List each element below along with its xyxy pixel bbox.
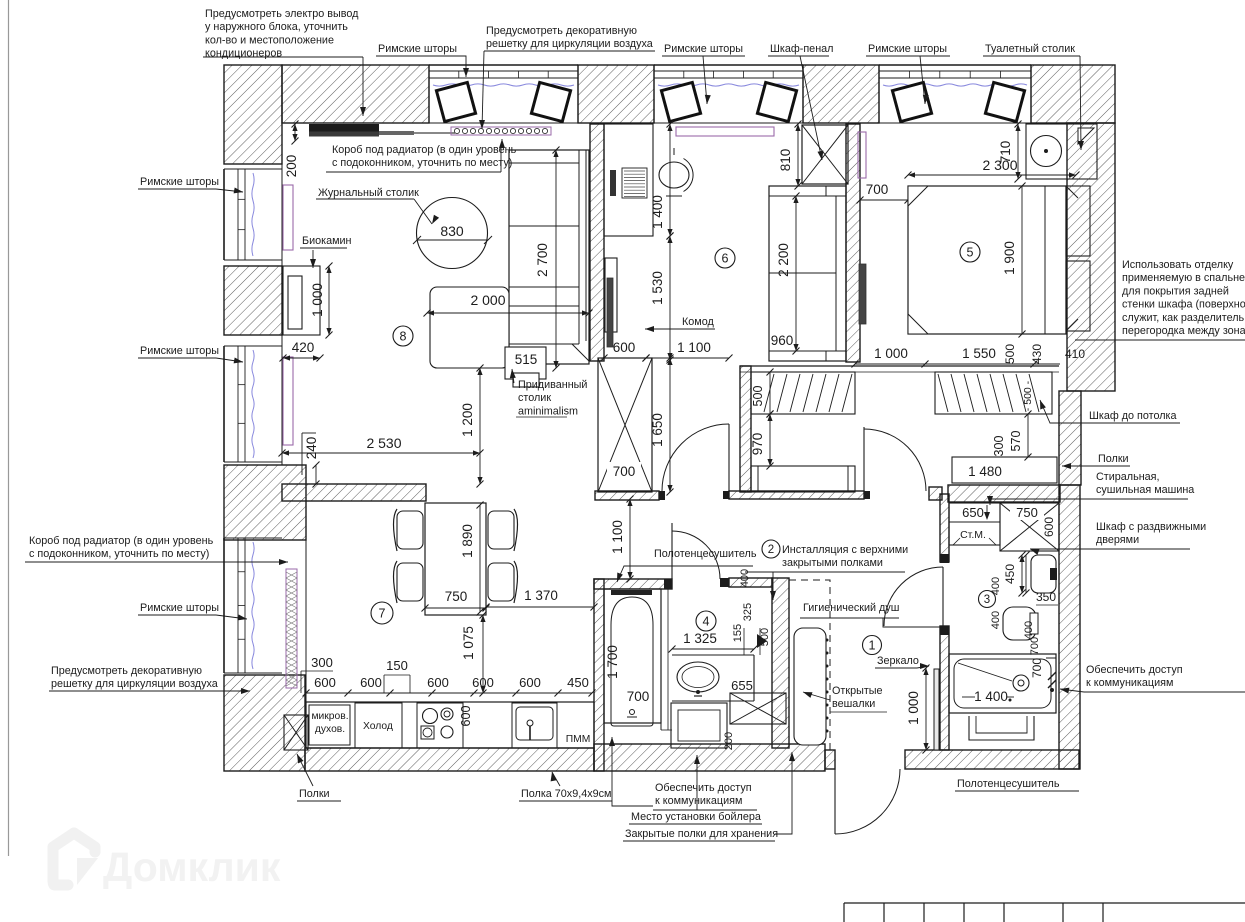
window top 1 (living room) — [429, 65, 578, 123]
svg-text:1 200: 1 200 — [460, 403, 475, 437]
svg-text:1 650: 1 650 — [650, 413, 665, 447]
svg-text:7: 7 — [379, 607, 386, 621]
dimension 2530 — [279, 435, 484, 457]
label towel rail bath4 — [617, 548, 757, 582]
door jamb room3 bottom — [940, 626, 949, 635]
svg-text:Гигиенический душ: Гигиенический душ — [803, 602, 899, 614]
svg-text:600: 600 — [1042, 517, 1056, 537]
svg-text:Домклик: Домклик — [103, 844, 281, 890]
svg-text:400: 400 — [990, 611, 1002, 629]
svg-text:700: 700 — [613, 464, 636, 479]
wall right mid — [1059, 391, 1081, 485]
svg-text:к коммуникациям: к коммуникациям — [1086, 677, 1173, 689]
svg-text:970: 970 — [750, 433, 765, 456]
svg-text:5: 5 — [967, 246, 974, 260]
kitchen sink — [512, 703, 557, 748]
dimension 960 — [771, 333, 794, 348]
bathtub room3 — [949, 654, 1056, 713]
svg-text:1: 1 — [869, 639, 876, 653]
label journal table — [316, 187, 439, 224]
svg-text:1 550: 1 550 — [962, 346, 996, 361]
dimension 2700 sofa — [535, 147, 560, 372]
svg-text:8: 8 — [400, 330, 407, 344]
kitchen fridge box — [355, 703, 402, 748]
kitchen dishwasher label — [566, 734, 591, 745]
svg-text:1 000: 1 000 — [874, 346, 908, 361]
title block table — [844, 903, 1245, 922]
wall top-left corner block — [224, 65, 282, 164]
window top 2 (room 6) — [654, 65, 803, 123]
wall bottom-left corner — [224, 675, 305, 771]
label biofireplace — [300, 235, 352, 268]
wall left pier 1 (biofireplace) — [224, 266, 282, 335]
svg-text:200: 200 — [723, 732, 735, 750]
wall hall top — [729, 491, 864, 499]
dimension 2000 table — [424, 292, 593, 317]
dimension 600 room6 — [601, 340, 650, 362]
label polki right — [1062, 453, 1130, 469]
label shkaf do potolka — [1040, 400, 1180, 423]
svg-text:Туалетный столик: Туалетный столик — [985, 43, 1075, 55]
dimension 600 vert kitchen — [459, 706, 473, 727]
label towel rail bottom right — [955, 778, 1079, 791]
svg-text:Шкаф с раздвижными: Шкаф с раздвижными — [1096, 521, 1206, 533]
svg-text:Инсталляция с верхними: Инсталляция с верхними — [782, 544, 908, 556]
svg-text:2 530: 2 530 — [366, 435, 401, 451]
label installation — [745, 544, 908, 600]
dimension 240 — [302, 433, 320, 488]
svg-text:700: 700 — [1030, 658, 1044, 678]
window left 2 — [224, 346, 282, 462]
wall right room3 — [1059, 485, 1080, 769]
dimension 1700 tub — [605, 645, 620, 679]
kitchen chair 3 — [488, 509, 518, 551]
dimension 1100 room6 — [643, 340, 733, 362]
door hall-bath4 — [672, 523, 720, 579]
svg-text:300: 300 — [311, 655, 333, 670]
svg-text:служит, как разделитель: служит, как разделитель — [1122, 312, 1245, 324]
svg-text:решетку для циркуляции воздуха: решетку для циркуляции воздуха — [486, 38, 653, 50]
door hall-room3 — [884, 567, 943, 626]
window left 1 — [224, 169, 282, 260]
faucet room3 wall — [1048, 672, 1056, 692]
svg-text:Полка 70х9,4х9см: Полка 70х9,4х9см — [521, 788, 611, 800]
svg-text:1 325: 1 325 — [683, 631, 717, 646]
dimension 450 room3 — [1003, 552, 1026, 597]
svg-text:3: 3 — [984, 594, 990, 606]
svg-text:Короб под радиатор (в один уро: Короб под радиатор (в один уровень — [332, 144, 517, 156]
svg-text:Предусмотреть декоративную: Предусмотреть декоративную — [486, 25, 637, 37]
svg-text:aminimalism: aminimalism — [518, 405, 578, 417]
dimension 300 kitchen — [301, 655, 333, 693]
biofireplace box — [283, 266, 320, 335]
svg-text:с подоконником, уточнить по ме: с подоконником, уточнить по месту) — [29, 548, 209, 560]
wall bath/wc divider — [772, 578, 789, 748]
svg-text:6: 6 — [722, 252, 729, 266]
svg-text:решетку для циркуляции воздуха: решетку для циркуляции воздуха — [51, 678, 218, 690]
cabinet 750 room3 — [1000, 503, 1059, 551]
svg-text:Полки: Полки — [1098, 453, 1129, 465]
dimension 700 tub — [627, 689, 650, 704]
kitchen counter row — [306, 702, 594, 748]
svg-text:4: 4 — [703, 615, 710, 629]
svg-text:410: 410 — [1065, 347, 1085, 361]
wardrobe right of bed — [1066, 186, 1090, 331]
svg-text:200: 200 — [284, 155, 299, 178]
svg-text:600: 600 — [519, 675, 541, 690]
desk chair room6 — [659, 148, 693, 196]
svg-text:Римские шторы: Римские шторы — [868, 43, 947, 55]
wall top pier 1 (between windows 1-2) — [578, 65, 654, 123]
door room6-hall — [662, 424, 729, 491]
svg-text:1 000: 1 000 — [310, 283, 325, 317]
svg-text:ПММ: ПММ — [566, 734, 591, 745]
tv room5 wall — [859, 264, 866, 324]
wall bath top right — [729, 578, 772, 587]
dressing table room5 — [1026, 124, 1097, 179]
svg-text:Холод: Холод — [363, 721, 393, 732]
svg-text:2: 2 — [768, 544, 774, 556]
svg-text:Полотенцесушитель: Полотенцесушитель — [654, 548, 757, 560]
kitchen chair 4 — [488, 561, 518, 603]
svg-text:600: 600 — [459, 706, 473, 727]
svg-text:микров.: микров. — [311, 711, 348, 722]
decorative grille strip — [451, 127, 551, 135]
wall bottom band kitchen — [305, 748, 594, 771]
dimension 970 hall — [750, 411, 774, 470]
dimension 1900 bed — [1002, 183, 1026, 338]
svg-text:960: 960 — [771, 333, 794, 348]
wall top pier 2 (between windows 2-3) — [803, 65, 879, 123]
svg-text:Зеркало: Зеркало — [877, 655, 919, 667]
wall left inner face line — [282, 164, 306, 702]
dims 400-700 room3 right — [1023, 621, 1041, 655]
towel rail room3 — [969, 716, 1034, 740]
dimension 1325 — [669, 631, 758, 653]
kitchen chair 2 — [394, 561, 424, 603]
svg-text:700: 700 — [866, 182, 889, 197]
svg-text:700: 700 — [1029, 637, 1041, 655]
svg-text:Придиванный: Придиванный — [518, 379, 587, 391]
boiler box under counter — [671, 703, 727, 748]
radiator left 2 — [283, 357, 293, 445]
dimension 710 — [998, 121, 1022, 183]
kitchen dim row — [303, 675, 596, 697]
svg-text:700: 700 — [627, 689, 650, 704]
svg-text:600: 600 — [314, 675, 336, 690]
svg-text:Римские шторы: Римские шторы — [140, 345, 219, 357]
svg-text:перегородка между зонами): перегородка между зонами) — [1122, 325, 1245, 337]
svg-text:750: 750 — [445, 589, 468, 604]
svg-text:570: 570 — [1009, 431, 1023, 452]
dimension 1000 hall — [906, 665, 930, 754]
svg-text:Биокамин: Биокамин — [302, 235, 352, 247]
svg-text:300: 300 — [992, 436, 1006, 457]
door jamb room6 left — [659, 491, 665, 500]
wall top band left — [282, 65, 429, 123]
wall right upper — [1067, 123, 1115, 391]
wall living/kitchen divider — [282, 484, 426, 501]
svg-text:500: 500 — [751, 386, 765, 407]
svg-text:Римские шторы: Римские шторы — [140, 176, 219, 188]
kitchen shelves corner box — [284, 715, 308, 750]
dimension 420 — [280, 340, 324, 362]
label mirror — [875, 655, 929, 669]
wall room6 bottom — [595, 491, 659, 500]
svg-text:вешалки: вешалки — [832, 698, 875, 710]
bathtub room4 — [604, 589, 661, 726]
label roman blinds 1 — [376, 43, 469, 77]
label shkaf-penal — [768, 43, 833, 160]
dimension 1650 — [650, 355, 674, 496]
svg-text:1 400: 1 400 — [974, 689, 1008, 704]
kitchen table — [425, 503, 486, 615]
dimension 300 shelf — [992, 436, 1006, 457]
dimension 170 hanger — [797, 633, 821, 660]
label decor grille left — [49, 665, 250, 694]
svg-text:сушильная машина: сушильная машина — [1096, 484, 1194, 496]
bed room5 — [908, 186, 1066, 334]
dimension 2300 bed — [905, 157, 1080, 179]
wall bottom tab entry left — [825, 750, 835, 769]
svg-text:Использовать отделку: Использовать отделку — [1122, 259, 1234, 271]
svg-text:Стиральная,: Стиральная, — [1096, 471, 1160, 483]
label roman blinds 3 — [866, 43, 950, 104]
svg-text:применяемую в спальне: применяемую в спальне — [1122, 272, 1245, 284]
svg-text:1 075: 1 075 — [461, 626, 476, 660]
svg-text:с подоконником, уточнить по ме: с подоконником, уточнить по месту) — [332, 157, 512, 169]
label polka bottom — [519, 772, 612, 801]
svg-text:600: 600 — [613, 340, 636, 355]
label roman blinds left1 — [138, 176, 243, 193]
journal table circle — [413, 198, 492, 269]
svg-text:750: 750 — [1016, 505, 1038, 520]
svg-text:стенки шкафа (поверхность: стенки шкафа (поверхность — [1122, 299, 1245, 311]
wall left pier 2 — [224, 465, 306, 540]
door jamb bath left — [664, 579, 672, 589]
svg-text:325: 325 — [742, 603, 754, 621]
svg-text:дверями: дверями — [1096, 534, 1139, 546]
label roman blinds left2 — [138, 345, 243, 363]
kitchen stove — [417, 703, 463, 748]
svg-text:- 500 -: - 500 - — [1022, 380, 1034, 411]
dimension 150 kitchen — [384, 658, 410, 693]
label closed shelves bottom — [623, 752, 795, 841]
kitchen microwave-oven box — [309, 705, 350, 745]
svg-text:400: 400 — [1023, 621, 1035, 639]
wall kitchen/bath divider — [594, 579, 604, 771]
dimension 350 room3 — [1036, 590, 1058, 605]
dimension 1000 biofireplace — [310, 263, 333, 339]
label use finish (right block) — [1075, 259, 1245, 340]
svg-text:Полки: Полки — [299, 788, 330, 800]
svg-text:кол-во и местоположение: кол-во и местоположение — [205, 34, 334, 46]
label decor grille top — [479, 25, 655, 129]
kitchen grille on wall — [286, 569, 297, 688]
label washing machine right — [987, 471, 1194, 505]
label korob pod radiator (top) — [326, 139, 517, 172]
svg-text:2 700: 2 700 — [535, 243, 550, 277]
toilet room3 — [1003, 607, 1038, 640]
closet hall (hangers) — [751, 372, 855, 414]
label open hangers — [803, 685, 887, 712]
tv room6 window wall — [676, 127, 774, 136]
entry door — [835, 769, 900, 834]
label roman blinds 2 — [662, 43, 745, 104]
node room 6 — [715, 248, 735, 268]
dimension 655 — [731, 678, 753, 693]
node room 4 — [696, 611, 716, 631]
svg-text:Предусмотреть декоративную: Предусмотреть декоративную — [51, 665, 202, 677]
svg-text:1 400: 1 400 — [650, 195, 665, 229]
sink counter bath4 — [672, 655, 754, 701]
wall top band right — [1031, 65, 1115, 123]
sofa living room — [509, 150, 589, 364]
dimension 1075 — [461, 612, 487, 697]
svg-text:Ст.М.: Ст.М. — [960, 529, 986, 541]
label polki bottom — [297, 754, 341, 801]
svg-text:810: 810 — [778, 149, 793, 172]
dimension 1890 — [460, 502, 484, 616]
tv console living room — [309, 124, 455, 137]
svg-text:у наружного блока, уточнить: у наружного блока, уточнить — [205, 21, 348, 33]
node room 8 — [393, 326, 413, 346]
svg-text:Предусмотреть электро вывод: Предусмотреть электро вывод — [205, 8, 359, 20]
label hygienic shower — [800, 602, 946, 627]
label electro block TL — [203, 8, 366, 116]
svg-text:Шкаф-пенал: Шкаф-пенал — [770, 43, 833, 55]
svg-text:2 200: 2 200 — [776, 243, 791, 277]
dimension row room5 bottom — [852, 344, 1086, 368]
dims 400 room3 — [990, 552, 1030, 630]
svg-text:350: 350 — [1036, 590, 1056, 604]
hall bench — [751, 466, 855, 492]
wall bottom band hall-room3 — [905, 750, 1079, 769]
hanger board wc — [794, 628, 829, 745]
svg-text:450: 450 — [1003, 564, 1017, 584]
watermark domklik — [53, 833, 281, 890]
svg-text:150: 150 — [386, 658, 408, 673]
svg-text:Римские шторы: Римские шторы — [378, 43, 457, 55]
svg-text:закрытыми полками: закрытыми полками — [782, 557, 883, 569]
svg-text:1 000: 1 000 — [906, 691, 921, 725]
svg-text:Обеспечить доступ: Обеспечить доступ — [1086, 664, 1183, 676]
wall room3 left upper — [940, 494, 949, 562]
washing machine stm — [949, 503, 1000, 545]
svg-text:1 900: 1 900 — [1002, 241, 1017, 275]
wall bottom band bath — [594, 744, 825, 771]
svg-text:к коммуникациям: к коммуникациям — [655, 795, 742, 807]
wall hall top tab — [929, 487, 942, 500]
wall room3 left lower — [940, 626, 949, 750]
kitchen chair 1 — [394, 509, 424, 551]
toilet bath4 (place) — [730, 693, 786, 724]
svg-text:Комод: Комод — [682, 316, 714, 328]
door jamb bath right — [720, 578, 729, 587]
dimension 2200 sofa6 — [776, 193, 800, 355]
dimension 600 room3 — [1042, 517, 1056, 537]
door corridor-room5 zone — [864, 427, 926, 491]
wall bath top left — [594, 579, 672, 589]
dimension 1370 — [483, 588, 598, 611]
node room 7 — [371, 602, 393, 624]
svg-text:600: 600 — [427, 675, 449, 690]
svg-text:515: 515 — [515, 352, 538, 367]
window top 3 (room 5) — [879, 65, 1031, 123]
dimension 700 room5 — [857, 182, 912, 204]
svg-text:450: 450 — [567, 675, 589, 690]
svg-text:Полотенцесушитель: Полотенцесушитель — [957, 778, 1060, 790]
label komod — [645, 316, 715, 332]
svg-text:Римские шторы: Римские шторы — [140, 602, 219, 614]
small dims bath4 — [723, 569, 771, 750]
door jamb room6 right — [723, 491, 729, 499]
label sliding wardrobe — [1030, 521, 1206, 555]
svg-text:600: 600 — [360, 675, 382, 690]
svg-text:1 100: 1 100 — [677, 340, 711, 355]
sink room3 — [1031, 555, 1057, 593]
svg-text:155: 155 — [732, 624, 744, 642]
label korob left — [25, 535, 288, 565]
node room 2 — [762, 540, 780, 558]
svg-text:655: 655 — [731, 678, 753, 693]
svg-text:1 530: 1 530 — [650, 271, 665, 305]
svg-text:1 480: 1 480 — [968, 464, 1002, 479]
svg-text:для покрытия задней: для покрытия задней — [1122, 285, 1229, 297]
wall room6/room5 divider — [846, 124, 860, 362]
svg-text:Место установки бойлера: Место установки бойлера — [631, 811, 761, 823]
bathtub apron lines — [661, 589, 672, 730]
dimension 500 closet — [751, 369, 774, 418]
side table 515 — [505, 347, 546, 387]
svg-text:столик: столик — [518, 392, 551, 404]
radiator left 1 — [283, 185, 293, 250]
sofa room6 — [769, 186, 846, 361]
svg-text:1 100: 1 100 — [610, 520, 625, 554]
door jamb hall right — [864, 491, 870, 499]
shelf 1480 — [952, 457, 1057, 483]
label access right — [1060, 664, 1245, 694]
svg-text:Обеспечить доступ: Обеспечить доступ — [655, 782, 752, 794]
dimension 1400 desk — [650, 121, 674, 240]
node room 1 — [863, 636, 882, 655]
svg-text:2 000: 2 000 — [470, 292, 505, 308]
svg-text:Римские шторы: Римские шторы — [664, 43, 743, 55]
tv stand room6 (komod) — [605, 258, 617, 347]
svg-text:Шкаф до потолка: Шкаф до потолка — [1089, 410, 1177, 422]
svg-text:духов.: духов. — [315, 724, 345, 735]
dimension 1100 corridor — [610, 496, 634, 583]
svg-text:кондиционеров: кондиционеров — [205, 48, 282, 60]
svg-text:240: 240 — [304, 437, 319, 460]
dimension 200 console — [284, 121, 299, 178]
living room table 2000 — [430, 287, 509, 368]
label access bottom — [609, 737, 757, 810]
wall hall vertical stub — [740, 366, 751, 492]
mirror on wall — [934, 669, 939, 750]
window left 3 — [224, 538, 282, 673]
dimension 1200 — [460, 365, 484, 488]
node room 5 — [960, 242, 980, 262]
wall room3 top band — [948, 485, 1060, 502]
wall living/room6 divider — [590, 124, 604, 361]
svg-text:1 890: 1 890 — [460, 524, 475, 558]
door jamb room3 top — [940, 554, 949, 563]
svg-text:420: 420 — [292, 340, 315, 355]
svg-text:1 370: 1 370 — [524, 588, 558, 603]
svg-text:650: 650 — [962, 505, 984, 520]
svg-text:500: 500 — [1003, 344, 1017, 364]
